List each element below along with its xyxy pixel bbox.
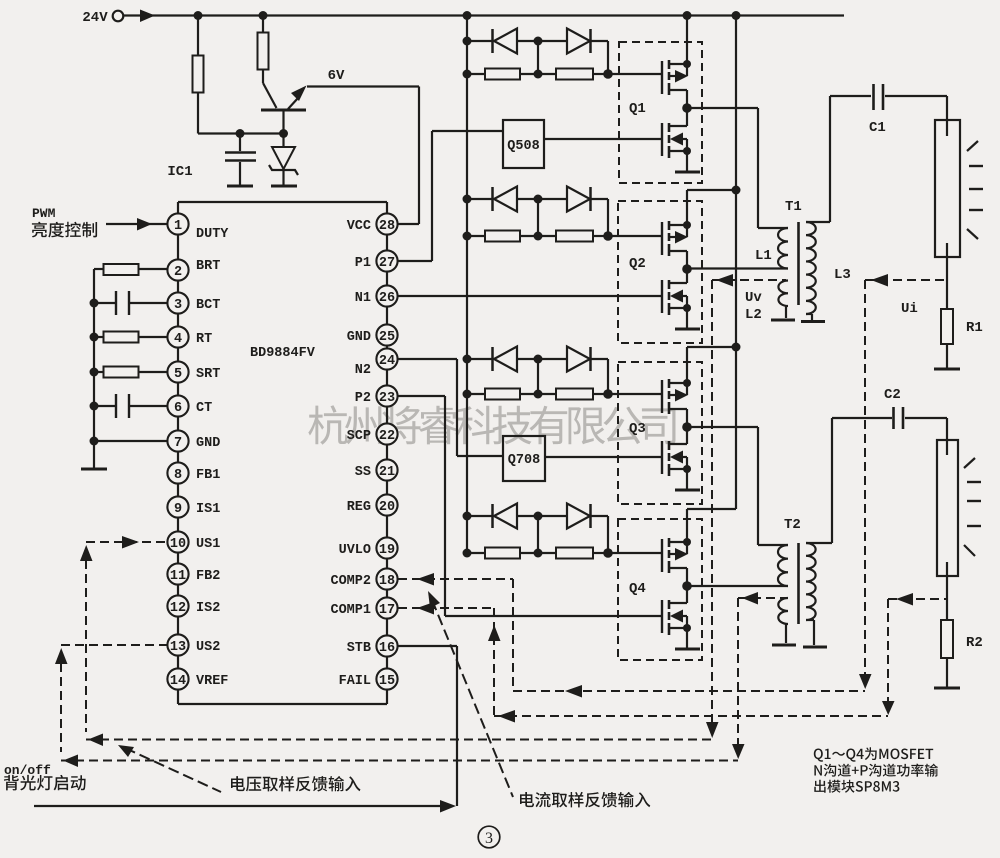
wire trunk to Q4 P-source [687, 508, 736, 510]
svg-text:P2: P2 [355, 391, 371, 406]
svg-text:N1: N1 [355, 291, 371, 306]
inductor L3 (T1 secondary) [806, 222, 816, 314]
node Q3 output [682, 422, 692, 432]
wire R1 to ground [946, 344, 948, 369]
wire R2 dashed feedback [888, 598, 947, 600]
wire voltage feedback line 2 (to US2) [61, 760, 738, 762]
module Q1 dashed box [619, 42, 702, 183]
svg-text:REG: REG [347, 500, 371, 515]
wire to P-gate of Q2 [608, 235, 661, 237]
pin 18 COMP2 [376, 568, 397, 589]
pin 1 DUTY [167, 213, 188, 234]
pin 17 COMP1 [376, 597, 397, 618]
svg-text:10: 10 [170, 537, 186, 552]
lamp LAMP1 (CCFL) [935, 120, 960, 257]
resistor pair R1a R1b (group 1) [467, 69, 608, 80]
node trunk-Q2 [732, 186, 741, 195]
ground (T2 aux) [772, 644, 796, 647]
inductor L1 (T1 primary) [778, 228, 788, 269]
node Q4 output [682, 581, 692, 591]
pin 3 BCT [167, 292, 188, 313]
capacitor (base filter) [239, 134, 241, 152]
node gate drive 3 [603, 389, 613, 399]
terminal 24V input circle [113, 11, 124, 22]
light rays lamp2 [964, 458, 981, 556]
resistor pair R2a R2b (group 2) [467, 231, 608, 242]
wire resistor A to node row [197, 92, 199, 134]
node bus-resistor row 4 [463, 549, 472, 558]
svg-text:Q3: Q3 [629, 421, 646, 437]
inductor T2 primary [778, 545, 788, 586]
wire on/off start line [34, 805, 441, 807]
pin 9 IS1 [167, 496, 188, 517]
svg-text:6V: 6V [328, 68, 345, 84]
capacitor CT (pin6) [94, 405, 115, 407]
node bus-resistor row 3 [463, 390, 472, 399]
page number 3 circled [478, 826, 500, 848]
svg-text:11: 11 [170, 569, 186, 584]
pin 21 SS [376, 459, 397, 480]
wire to P-gate of Q3 [608, 393, 661, 395]
svg-text:DUTY: DUTY [196, 227, 229, 242]
ground (R1) [934, 368, 960, 371]
svg-text:C2: C2 [884, 387, 901, 403]
module Q3 dashed box [618, 362, 702, 504]
wire trunk 24V vertical [735, 16, 737, 510]
pin 2 BRT [167, 259, 188, 280]
pin 27 P1 [376, 250, 397, 271]
pin 25 GND [376, 324, 397, 345]
label 电流取样反馈输入 [520, 792, 650, 808]
svg-text:Q1: Q1 [629, 101, 646, 117]
svg-text:P1: P1 [355, 256, 371, 271]
wire rail to resistor B [262, 16, 264, 34]
wire voltage feedback line 1 (to US1) [86, 739, 712, 741]
resistor (24V divider left) [193, 56, 204, 93]
node rail-Q1source [683, 11, 692, 20]
svg-text:COMP1: COMP1 [330, 603, 371, 618]
node resistor mid 2 [534, 232, 543, 241]
svg-text:L2: L2 [745, 307, 762, 323]
diode pair D4a D4b (group 4) [467, 504, 608, 554]
pin 24 N2 [376, 348, 397, 369]
pin 22 SCP [376, 423, 397, 444]
driver Q508 [503, 120, 544, 168]
node diode mid 4 [534, 512, 543, 521]
ground (bias bus) [81, 468, 107, 471]
svg-text:22: 22 [379, 429, 395, 444]
pointer line voltage feedback label [125, 748, 221, 792]
pin 16 STB [376, 635, 397, 656]
node cap junction [236, 129, 245, 138]
driver Q708 [503, 436, 545, 481]
node bus-pin3 [90, 299, 99, 308]
node diode mid 1 [534, 37, 543, 46]
capacitor C1 [872, 84, 875, 110]
node rail-trunk [732, 11, 741, 20]
pin 20 REG [376, 494, 397, 515]
svg-text:12: 12 [170, 601, 186, 616]
wire T2 secondary to C2 [831, 418, 833, 543]
wire Uv T1 dashed feedback [712, 279, 786, 281]
svg-text:BRT: BRT [196, 259, 220, 274]
inductor T2 secondary [806, 543, 816, 620]
pin 8 FB1 [167, 462, 188, 483]
inductor L2 (T1 aux winding Uv) [778, 281, 788, 307]
light rays lamp1 [967, 141, 983, 239]
node bus-diode row 1 [463, 37, 472, 46]
transistor V1 base bar [261, 109, 306, 112]
svg-text:R1: R1 [966, 320, 983, 336]
wire COMP1 dashed line [398, 607, 494, 609]
svg-text:Ui: Ui [901, 301, 918, 317]
svg-text:FB2: FB2 [196, 569, 220, 584]
wire 6V line emitter to pin28 [307, 85, 419, 87]
wire L3 top to C1 [829, 96, 831, 222]
module Q2 dashed box [618, 201, 702, 343]
resistor SRT (pin5) [94, 371, 104, 373]
pin 14 VREF [167, 668, 188, 689]
resistor BRT (pin2) [94, 268, 104, 270]
IC U1 outline bottom (pin14 to pin15) [177, 690, 179, 704]
lamp LAMP2 (CCFL) [937, 440, 958, 576]
svg-text:T2: T2 [784, 517, 801, 533]
wire US2 dashed input with arrow [61, 644, 167, 646]
svg-text:BD9884FV: BD9884FV [250, 346, 316, 361]
wire P1 pin27 to Q508 [398, 260, 432, 262]
svg-text:IS2: IS2 [196, 601, 220, 616]
svg-text:13: 13 [170, 640, 186, 655]
svg-text:SS: SS [355, 465, 371, 480]
node bus-resistor row 1 [463, 70, 472, 79]
node bus-diode row 3 [463, 355, 472, 364]
svg-text:17: 17 [379, 603, 395, 618]
node trunk-Q3 [732, 343, 741, 352]
wire N1 pin26 to Q2 N-gate [398, 295, 661, 297]
svg-text:Q708: Q708 [508, 453, 540, 468]
wire STB pin16 to on/off line [398, 645, 457, 647]
pin 12 IS2 [167, 595, 188, 616]
pin 4 RT [167, 326, 188, 347]
wire Q708 to Q3 N-gate [545, 456, 662, 458]
node rail-gatebus [463, 11, 472, 20]
transistor Q4 N-MOSFET [662, 586, 700, 649]
resistor RT (pin4) [94, 336, 104, 338]
wire diode-resistor link 3 [537, 359, 539, 394]
IC U1 BD9884FV outline top [177, 202, 179, 213]
svg-text:9: 9 [174, 502, 182, 517]
svg-text:UVLO: UVLO [339, 543, 371, 558]
wire rail to resistor A [197, 16, 199, 57]
node bus-diode row 4 [463, 512, 472, 521]
svg-text:L3: L3 [834, 267, 851, 283]
wire lamp1 to R1 [946, 257, 948, 309]
svg-text:FAIL: FAIL [339, 674, 371, 689]
node diode mid 3 [534, 355, 543, 364]
svg-text:Q4: Q4 [629, 581, 646, 597]
svg-text:1: 1 [174, 219, 182, 234]
svg-text:T1: T1 [785, 199, 802, 215]
node gate drive 1 [603, 69, 613, 79]
node bus-pin4 [90, 333, 99, 342]
svg-text:SRT: SRT [196, 367, 220, 382]
wire gate network bus [466, 16, 468, 554]
svg-text:BCT: BCT [196, 298, 220, 313]
wire resistor B to transistor collector [262, 69, 264, 83]
pin 6 CT [167, 395, 188, 416]
svg-text:27: 27 [379, 256, 395, 271]
svg-text:7: 7 [174, 436, 182, 451]
wire N2 pin24 to Q708 [398, 358, 457, 360]
svg-text:US2: US2 [196, 640, 220, 655]
svg-text:STB: STB [347, 641, 371, 656]
pin 10 US1 [167, 531, 188, 552]
svg-text:RT: RT [196, 332, 212, 347]
pointer line current feedback label [432, 600, 513, 797]
node resistor mid 4 [534, 549, 543, 558]
arrow on 24V rail [140, 10, 155, 23]
resistor (24V divider right, to transistor collector) [258, 33, 269, 70]
svg-text:16: 16 [379, 641, 395, 656]
diode pair D3a D3b (group 3) [467, 347, 608, 395]
wire Q2 output to L1 bottom [687, 267, 788, 269]
svg-text:19: 19 [379, 543, 395, 558]
svg-text:20: 20 [379, 500, 395, 515]
wire IC left pin column [177, 213, 179, 690]
transistor Q1 N-MOSFET [662, 108, 700, 172]
wire L3 bottom lead [806, 313, 812, 315]
ground (R2) [934, 687, 960, 690]
svg-text:3: 3 [174, 298, 182, 313]
node resistor mid 1 [534, 70, 543, 79]
node gate drive 4 [603, 548, 613, 558]
wire C2 to lamp2 [905, 417, 947, 419]
wire P2 pin23 to Q4 N-gate [398, 395, 445, 397]
resistor R2 [941, 620, 953, 658]
svg-text:21: 21 [379, 465, 395, 480]
svg-text:VCC: VCC [347, 219, 371, 234]
wire Q4 output to T2 primary bottom [687, 585, 788, 587]
svg-text:14: 14 [170, 674, 186, 689]
svg-text:23: 23 [379, 391, 395, 406]
pin 26 N1 [376, 285, 397, 306]
node Q2 output [682, 264, 692, 274]
wire R2 to ground [946, 658, 948, 688]
pin 13 US2 [167, 634, 188, 655]
resistor R1 [941, 309, 953, 344]
zener diode VD (6V ref) [282, 134, 284, 148]
wire node row horizontal [198, 132, 284, 134]
diode pair D2a D2b (group 2) [467, 187, 608, 237]
svg-text:N2: N2 [355, 363, 371, 378]
wire lamp2 to R2 [946, 576, 948, 620]
wire to P-gate of Q1 [608, 73, 661, 75]
wire Q508 to Q1 N-gate [544, 138, 661, 140]
svg-text:2: 2 [174, 265, 182, 280]
svg-text:5: 5 [174, 367, 182, 382]
label 电压取样反馈输入 [231, 776, 361, 792]
note text Q1-Q4 MOSFET [814, 747, 938, 793]
transistor Q2 N-MOSFET [662, 269, 700, 329]
transistor Q2 P-MOSFET [662, 190, 691, 269]
transformer T2 core [797, 543, 800, 624]
svg-text:3: 3 [485, 830, 493, 847]
inductor T2 aux winding [778, 598, 788, 624]
pin 7 GND [167, 430, 188, 451]
wire to P-gate of Q4 [608, 552, 661, 554]
node resistor mid 3 [534, 390, 543, 399]
svg-text:IC1: IC1 [167, 164, 192, 180]
svg-text:R2: R2 [966, 635, 983, 651]
wire 24V rail [124, 14, 845, 16]
svg-text:28: 28 [379, 219, 395, 234]
node bus-resistor row 2 [463, 232, 472, 241]
pin 28 VCC [376, 213, 397, 234]
wire diode-resistor link 4 [537, 516, 539, 553]
wire Q3 output to T2 primary top [687, 426, 758, 428]
transistor Q3 N-MOSFET [662, 427, 700, 490]
transistor V1 emitter with arrow [288, 98, 298, 109]
svg-text:26: 26 [379, 291, 395, 306]
node bus-pin7 [90, 437, 99, 446]
svg-text:PWM: PWM [32, 206, 56, 221]
node diode mid 2 [534, 195, 543, 204]
wire US1 dashed input with arrow [86, 541, 167, 543]
wire COMP2 dashed line [398, 578, 513, 580]
ground (L2) [771, 319, 795, 322]
ground (L3) [801, 320, 825, 323]
svg-text:15: 15 [379, 674, 395, 689]
wire C1 to lamp1 [885, 95, 947, 97]
transistor Q4 P-MOSFET [662, 509, 691, 586]
wire PWM input arrow [106, 223, 167, 225]
node bus-diode row 2 [463, 195, 472, 204]
wire base down to node [282, 110, 284, 134]
watermark 杭州将睿科技有限公司 [308, 405, 675, 444]
svg-text:CT: CT [196, 401, 212, 416]
diode pair D1a D1b (group 1) [467, 29, 608, 75]
wire Ui R1 dashed feedback [865, 279, 947, 281]
svg-text:6: 6 [174, 401, 182, 416]
svg-text:24: 24 [379, 354, 395, 369]
wire T2 secondary bottom lead [806, 619, 814, 621]
svg-text:IS1: IS1 [196, 502, 220, 517]
node base-RC junction [279, 129, 288, 138]
svg-text:Q508: Q508 [507, 139, 539, 154]
svg-text:25: 25 [379, 330, 395, 345]
wire diode-resistor link 2 [537, 199, 539, 236]
svg-text:Q2: Q2 [629, 256, 646, 272]
svg-text:8: 8 [174, 468, 182, 483]
wire Q3 P-source to trunk [687, 346, 736, 348]
svg-text:FB1: FB1 [196, 468, 220, 483]
module Q4 dashed box [618, 519, 702, 660]
wire Uv T2 dashed feedback [738, 597, 786, 599]
node bus-pin5 [90, 368, 99, 377]
ground (zener) [271, 185, 297, 188]
resistor pair R3a R3b (group 3) [467, 389, 608, 400]
svg-text:GND: GND [196, 436, 220, 451]
svg-text:24V: 24V [82, 10, 108, 26]
pin 5 SRT [167, 361, 188, 382]
transistor Q3 P-MOSFET [662, 347, 691, 427]
wire Q1 output to L1 top [687, 107, 758, 109]
capacitor C2 [892, 407, 895, 429]
pin 19 UVLO [376, 537, 397, 558]
node bus-pin6 [90, 402, 99, 411]
svg-text:SCP: SCP [347, 429, 371, 444]
node gate drive 2 [603, 231, 613, 241]
svg-text:VREF: VREF [196, 674, 228, 689]
svg-text:COMP2: COMP2 [330, 574, 371, 589]
wire GND pin7 [94, 440, 167, 442]
transformer T1 core [797, 222, 800, 305]
capacitor BCT (pin3) [94, 302, 115, 304]
svg-text:C1: C1 [869, 120, 886, 136]
node Q1 output [682, 103, 692, 113]
pin 23 P2 [376, 385, 397, 406]
node rail-R1b [259, 11, 268, 20]
svg-text:GND: GND [347, 330, 371, 345]
svg-text:4: 4 [174, 332, 182, 347]
svg-text:L1: L1 [755, 248, 772, 264]
wire IC right pin column [386, 213, 388, 690]
wire left bias bus [93, 269, 95, 469]
transistor Q1 P-MOSFET [662, 16, 691, 109]
resistor pair R4a R4b (group 4) [467, 548, 608, 559]
wire diode-resistor link 1 [537, 41, 539, 74]
svg-text:US1: US1 [196, 537, 220, 552]
svg-text:Uv: Uv [745, 290, 762, 306]
ground (T2 secondary) [803, 646, 827, 649]
node rail-R1a [194, 11, 203, 20]
svg-text:18: 18 [379, 574, 395, 589]
ground (cap) [227, 185, 253, 188]
wire Q2 P-source to trunk [687, 189, 736, 191]
pin 11 FB2 [167, 563, 188, 584]
pin 15 FAIL [376, 668, 397, 689]
